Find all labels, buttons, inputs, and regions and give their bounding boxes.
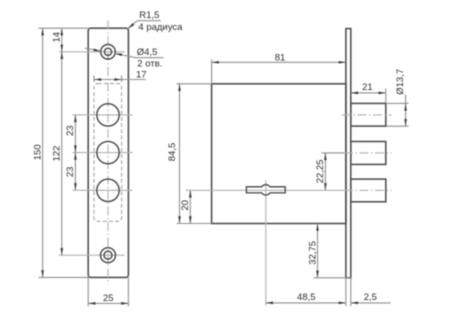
svg-text:17: 17 [136, 69, 147, 80]
svg-text:48,5: 48,5 [297, 292, 316, 303]
svg-text:122: 122 [52, 146, 63, 162]
svg-text:Ø4,5: Ø4,5 [137, 47, 158, 58]
svg-text:14: 14 [52, 32, 63, 43]
svg-text:4 радиуса: 4 радиуса [138, 22, 183, 33]
svg-text:22,25: 22,25 [315, 160, 326, 184]
svg-text:25: 25 [103, 293, 114, 304]
svg-text:84,5: 84,5 [167, 143, 178, 162]
svg-text:21: 21 [362, 82, 373, 93]
svg-text:150: 150 [32, 144, 43, 160]
svg-text:32,75: 32,75 [307, 241, 318, 265]
svg-text:23: 23 [65, 125, 76, 136]
svg-text:Ø13,7: Ø13,7 [395, 69, 406, 95]
svg-text:R1,5: R1,5 [139, 10, 159, 21]
svg-text:2 отв.: 2 отв. [137, 59, 162, 70]
svg-text:20: 20 [180, 200, 191, 211]
svg-text:23: 23 [65, 167, 76, 178]
svg-text:81: 81 [275, 53, 286, 64]
svg-text:2,5: 2,5 [364, 292, 377, 303]
